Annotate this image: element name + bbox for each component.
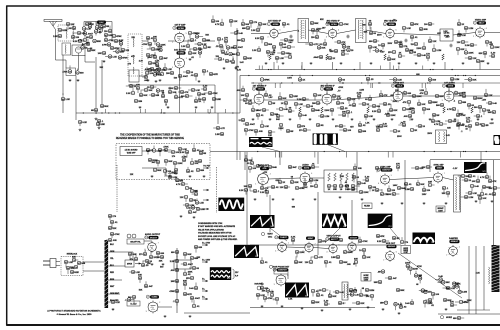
ground bbox=[155, 80, 158, 83]
part R286 with value label bbox=[176, 182, 188, 186]
value label bbox=[338, 86, 343, 89]
value label bbox=[393, 101, 398, 103]
tube V11 1ST AUDIO bbox=[442, 81, 457, 102]
svg-text:0.5V: 0.5V bbox=[490, 123, 495, 125]
part R220 with value label bbox=[462, 92, 466, 98]
part R489 with value label bbox=[410, 128, 417, 132]
wire cluster top bbox=[128, 84, 215, 86]
value label bbox=[264, 190, 268, 192]
junction node bbox=[232, 112, 233, 113]
ground bbox=[370, 62, 373, 65]
part R492 with value label bbox=[480, 173, 489, 179]
part R36 with value label bbox=[148, 61, 157, 65]
value label bbox=[353, 264, 356, 266]
wire bbox=[217, 113, 219, 124]
junction node bbox=[475, 75, 476, 76]
part R344 with value label bbox=[422, 186, 431, 192]
ground bbox=[151, 263, 154, 266]
value label bbox=[476, 273, 481, 275]
svg-text:220K: 220K bbox=[363, 192, 369, 194]
svg-text:2: 2 bbox=[159, 302, 160, 304]
part R323 with value label bbox=[309, 178, 318, 184]
IF transformer T2 bbox=[356, 19, 367, 43]
ground bbox=[445, 308, 448, 311]
svg-text:1ST SOUND IF: 1ST SOUND IF bbox=[253, 85, 268, 87]
part R164 with value label bbox=[201, 85, 208, 91]
ground bbox=[147, 79, 150, 82]
part R362 with value label bbox=[318, 239, 327, 243]
svg-text:1.5K: 1.5K bbox=[288, 299, 293, 301]
svg-text:1.5K: 1.5K bbox=[112, 56, 117, 58]
value label bbox=[291, 176, 294, 178]
tube V8 1ST SOUND IF bbox=[252, 85, 268, 105]
value label bbox=[199, 150, 204, 152]
capacitor C1 bbox=[290, 35, 293, 39]
part R16 with value label bbox=[110, 46, 120, 50]
part R509 with value label bbox=[129, 270, 140, 274]
part R119 with value label bbox=[465, 56, 477, 60]
svg-text:47K: 47K bbox=[403, 101, 407, 104]
svg-text:5-40: 5-40 bbox=[302, 114, 307, 117]
sound takeoff transformer bbox=[436, 130, 447, 144]
part R296 with value label bbox=[188, 208, 197, 214]
part R40 with value label bbox=[145, 67, 154, 75]
value label bbox=[447, 127, 451, 129]
feed arrow bbox=[203, 208, 209, 210]
ground bbox=[189, 175, 192, 178]
part R476 with value label bbox=[434, 122, 447, 126]
part R500 with value label bbox=[244, 155, 253, 162]
value label bbox=[146, 149, 151, 152]
part R170 with value label bbox=[194, 97, 201, 103]
part R90 with value label bbox=[313, 55, 323, 59]
part R488 with value label bbox=[390, 129, 401, 133]
part R349 with value label bbox=[470, 184, 479, 191]
ground bbox=[475, 200, 478, 203]
mixer output wire bbox=[78, 56, 80, 70]
junction node bbox=[161, 112, 162, 113]
svg-text:1K: 1K bbox=[332, 58, 335, 60]
part R215 with value label bbox=[435, 94, 444, 98]
part R385 with value label bbox=[324, 300, 330, 306]
tuner RF dashed box bbox=[58, 25, 74, 41]
tube top feed wire bbox=[397, 83, 399, 95]
wire bbox=[239, 76, 241, 114]
part R9 with value label bbox=[93, 39, 102, 43]
value label bbox=[427, 133, 432, 135]
svg-text:12K: 12K bbox=[395, 90, 399, 92]
part R98 with value label bbox=[388, 50, 396, 54]
svg-text:HORIZ: HORIZ bbox=[446, 317, 453, 319]
part R439 with value label bbox=[396, 288, 405, 292]
svg-text:CONDENSERS WITH 170V.: CONDENSERS WITH 170V. bbox=[198, 223, 223, 225]
part R408 with value label bbox=[186, 276, 194, 280]
part R297 with value label bbox=[239, 188, 248, 194]
svg-text:2: 2 bbox=[446, 254, 447, 256]
wire bbox=[144, 240, 152, 242]
svg-text:1.5K: 1.5K bbox=[68, 262, 73, 264]
hor phase det label bbox=[269, 265, 290, 268]
part R459 with value label bbox=[78, 36, 87, 42]
ground bbox=[423, 202, 426, 205]
tube V17 12AU7 bbox=[275, 236, 289, 253]
svg-text:6CB6: 6CB6 bbox=[273, 24, 279, 26]
junction node bbox=[463, 151, 464, 152]
feed arrow bbox=[202, 289, 208, 292]
part R401 with value label bbox=[173, 299, 179, 305]
ground bbox=[411, 118, 414, 121]
bus tap wire bbox=[398, 66, 400, 70]
value label bbox=[384, 114, 389, 116]
svg-text:VIDEO AMP: VIDEO AMP bbox=[475, 18, 487, 21]
part R273 with value label bbox=[153, 168, 162, 172]
part R227 with value label bbox=[256, 113, 264, 120]
part R237 with value label bbox=[474, 114, 483, 118]
part R71 with value label bbox=[266, 50, 275, 57]
part R69 with value label bbox=[264, 42, 273, 46]
scope callout 3 bbox=[390, 228, 400, 240]
svg-text:470K: 470K bbox=[122, 56, 128, 59]
svg-text:5-40: 5-40 bbox=[282, 46, 287, 49]
svg-text:10K: 10K bbox=[194, 163, 198, 165]
part R199 with value label bbox=[359, 102, 370, 106]
interlock dashed box bbox=[61, 257, 83, 276]
capacitor C4 bbox=[450, 44, 453, 48]
vert osc label bbox=[261, 232, 273, 238]
part R188 with value label bbox=[313, 93, 322, 100]
right rail wire bbox=[493, 160, 495, 245]
value label bbox=[393, 20, 397, 22]
svg-text:6AC7: 6AC7 bbox=[479, 22, 485, 25]
ground bbox=[398, 62, 401, 65]
part R428 with value label bbox=[378, 270, 385, 274]
wire bbox=[142, 40, 148, 42]
svg-text:B+ ADJ: B+ ADJ bbox=[131, 302, 137, 305]
phase det box bbox=[274, 269, 288, 274]
junction node bbox=[304, 69, 305, 70]
resistor R136 bbox=[442, 54, 444, 60]
waveform scope S12 (saw) bbox=[234, 245, 259, 258]
part R160 with value label bbox=[174, 92, 183, 99]
part R190 with value label bbox=[311, 108, 320, 112]
value label bbox=[139, 60, 144, 63]
part R440 with value label bbox=[425, 298, 433, 305]
junction node bbox=[430, 69, 431, 70]
ground bbox=[79, 129, 82, 132]
value label bbox=[437, 33, 441, 35]
part R201 with value label bbox=[368, 104, 381, 108]
tube V23 HOR OUT bbox=[383, 243, 397, 262]
svg-text:6SN7GT: 6SN7GT bbox=[278, 270, 287, 272]
svg-text:82K: 82K bbox=[294, 182, 298, 184]
part R224 with value label bbox=[484, 89, 493, 97]
value label bbox=[160, 267, 164, 269]
part R145 with value label bbox=[61, 93, 70, 101]
value label bbox=[446, 288, 450, 290]
svg-text:10K: 10K bbox=[455, 283, 459, 285]
value label bbox=[461, 131, 464, 133]
value label bbox=[326, 23, 331, 25]
value label bbox=[400, 123, 404, 125]
part R121 with value label bbox=[249, 20, 258, 28]
ground bbox=[454, 118, 457, 121]
coil L8 bbox=[168, 173, 176, 174]
part R210 with value label bbox=[417, 99, 426, 105]
part R12 with value label bbox=[104, 35, 114, 42]
svg-text:AGC KEYER: AGC KEYER bbox=[174, 48, 186, 51]
svg-text:2.2M: 2.2M bbox=[468, 28, 473, 30]
part R94 with value label bbox=[373, 49, 383, 53]
svg-text:6CB6: 6CB6 bbox=[178, 28, 184, 30]
socket lead label BLK bbox=[110, 244, 115, 246]
part R341 with value label bbox=[404, 182, 412, 188]
svg-text:.0047: .0047 bbox=[182, 75, 188, 78]
part R450 with value label bbox=[202, 69, 209, 75]
svg-text:82K: 82K bbox=[393, 110, 397, 112]
tube V24 DAMPER bbox=[446, 237, 460, 257]
part R339 with value label bbox=[386, 192, 399, 196]
value label bbox=[85, 42, 90, 44]
value label bbox=[130, 174, 134, 176]
part R264 with value label bbox=[192, 144, 200, 152]
ground bbox=[332, 118, 335, 121]
svg-text:1: 1 bbox=[288, 243, 289, 245]
svg-text:4.7K: 4.7K bbox=[213, 73, 218, 76]
part R169 with value label bbox=[164, 99, 168, 106]
svg-text:3.3K: 3.3K bbox=[461, 35, 466, 37]
resistor R133 bbox=[269, 54, 271, 60]
part R47 with value label bbox=[181, 40, 190, 47]
part R26 with value label bbox=[97, 119, 104, 126]
ground bbox=[261, 305, 264, 308]
part R149 with value label bbox=[136, 84, 140, 93]
part R29 with value label bbox=[142, 42, 152, 49]
part R355 with value label bbox=[480, 189, 488, 196]
svg-text:470K: 470K bbox=[264, 78, 270, 81]
ground bbox=[164, 315, 167, 318]
part R38 with value label bbox=[145, 67, 154, 71]
value label bbox=[467, 300, 472, 302]
value label bbox=[287, 78, 292, 80]
svg-text:.0047: .0047 bbox=[171, 171, 177, 174]
ground bbox=[98, 127, 101, 130]
svg-text:8.2K: 8.2K bbox=[397, 79, 402, 81]
wire bbox=[166, 168, 170, 176]
agc drop wire bbox=[62, 99, 64, 113]
svg-text:135V: 135V bbox=[422, 194, 427, 196]
part R167 with value label bbox=[212, 97, 221, 101]
svg-text:6AU6: 6AU6 bbox=[326, 88, 332, 91]
part R383 with value label bbox=[366, 294, 374, 300]
svg-text:6BG6G: 6BG6G bbox=[388, 246, 396, 248]
socket wire 4 bbox=[108, 293, 120, 295]
svg-text:82K: 82K bbox=[460, 49, 464, 51]
hor freq control bbox=[255, 284, 265, 291]
junction node bbox=[312, 75, 313, 76]
part R473 with value label bbox=[238, 118, 245, 122]
resistor R254 bbox=[367, 107, 369, 113]
svg-text:56K: 56K bbox=[332, 296, 336, 298]
feed arrow bbox=[202, 297, 208, 300]
svg-text:3: 3 bbox=[274, 284, 275, 286]
value label bbox=[297, 31, 300, 33]
junction node bbox=[248, 75, 249, 76]
part R356 with value label bbox=[375, 166, 384, 172]
svg-text:2.2M: 2.2M bbox=[462, 292, 467, 294]
IF input shield dashed bbox=[128, 34, 142, 76]
svg-text:39K: 39K bbox=[298, 262, 302, 264]
part R173 with value label bbox=[241, 93, 249, 100]
ground bbox=[90, 47, 93, 50]
junction node bbox=[369, 75, 370, 76]
svg-text:3.3K: 3.3K bbox=[443, 31, 448, 33]
part R352 with value label bbox=[488, 176, 497, 183]
svg-text:47K: 47K bbox=[130, 258, 134, 261]
value label bbox=[390, 95, 395, 97]
svg-text:8.2K: 8.2K bbox=[119, 40, 124, 42]
socket wire 1 bbox=[108, 251, 125, 253]
ground bbox=[292, 198, 295, 201]
part R487 with value label bbox=[376, 124, 380, 132]
part R81 with value label bbox=[305, 42, 318, 46]
coil L2 bbox=[65, 45, 66, 54]
part R122 with value label bbox=[258, 22, 267, 29]
part R43 with value label bbox=[188, 31, 198, 38]
part R177 with value label bbox=[268, 101, 275, 105]
junction node bbox=[434, 151, 435, 152]
tube V21 6SN7GT bbox=[273, 268, 288, 286]
svg-text:3.3K: 3.3K bbox=[476, 273, 481, 275]
svg-text:4.7K: 4.7K bbox=[187, 293, 192, 296]
svg-text:47K: 47K bbox=[184, 91, 188, 94]
bus tap wire bbox=[314, 152, 316, 158]
part R455 with value label bbox=[104, 26, 112, 33]
bus tap wire bbox=[387, 152, 389, 158]
part R314 with value label bbox=[250, 189, 260, 193]
part R429 with value label bbox=[380, 301, 388, 305]
vert wire bbox=[356, 152, 358, 168]
part R503 with value label bbox=[311, 255, 324, 259]
bus tap wire bbox=[195, 109, 197, 113]
ground bbox=[415, 62, 418, 65]
svg-text:2.2M: 2.2M bbox=[454, 79, 459, 81]
value label bbox=[416, 284, 419, 286]
part R477 with value label bbox=[445, 119, 457, 123]
part R266 with value label bbox=[148, 158, 158, 162]
part R447 with value label bbox=[178, 74, 188, 80]
svg-text:12K: 12K bbox=[305, 262, 309, 264]
part R183 with value label bbox=[289, 94, 298, 98]
value label bbox=[147, 263, 151, 265]
value label bbox=[159, 261, 163, 263]
part R350 with value label bbox=[472, 176, 480, 183]
ground bbox=[398, 312, 401, 315]
vertical feed wire lower bbox=[236, 100, 238, 160]
part R7 with value label bbox=[94, 30, 102, 36]
part R249 with value label bbox=[456, 119, 465, 127]
svg-text:12K: 12K bbox=[472, 58, 476, 60]
ground bbox=[180, 215, 183, 218]
svg-text:220K: 220K bbox=[390, 115, 396, 117]
part R460 with value label bbox=[58, 28, 67, 32]
svg-text:5-40: 5-40 bbox=[339, 291, 344, 294]
part R86 with value label bbox=[330, 49, 338, 53]
wire bottom power bbox=[184, 312, 250, 314]
value label bbox=[383, 122, 388, 125]
part R197 with value label bbox=[346, 110, 353, 117]
part R494 with value label bbox=[478, 196, 487, 204]
ground bbox=[487, 62, 490, 65]
junction node bbox=[115, 112, 116, 113]
part R85 with value label bbox=[342, 45, 351, 52]
svg-text:3.3K: 3.3K bbox=[195, 90, 200, 92]
svg-text:DRIVE: DRIVE bbox=[364, 277, 369, 279]
value label bbox=[328, 294, 331, 296]
part R510 with value label bbox=[138, 275, 142, 283]
socket lead label BLU bbox=[110, 265, 115, 267]
part R318 with value label bbox=[278, 178, 285, 184]
part R127 with value label bbox=[402, 26, 411, 32]
ground bbox=[198, 80, 201, 83]
horiz drive control box 2 bbox=[401, 246, 411, 255]
coil L10 bbox=[456, 177, 457, 210]
junction node bbox=[465, 151, 466, 152]
svg-text:6W4GT: 6W4GT bbox=[451, 240, 459, 243]
twin lead wire bbox=[55, 30, 57, 39]
deflection label bbox=[440, 316, 452, 319]
tube V2 1ST IF AMP bbox=[172, 24, 186, 45]
part R416 with value label bbox=[405, 263, 411, 271]
wire drop bbox=[317, 192, 319, 255]
part R508 with value label bbox=[141, 261, 149, 267]
part R52 with value label bbox=[202, 38, 211, 42]
svg-text:3: 3 bbox=[146, 311, 147, 313]
svg-text:6: 6 bbox=[396, 29, 397, 31]
part R268 with value label bbox=[164, 159, 173, 165]
svg-text:56K: 56K bbox=[446, 288, 450, 290]
value label bbox=[139, 289, 143, 291]
value label bbox=[174, 78, 178, 80]
svg-text:220K: 220K bbox=[467, 300, 472, 302]
section dashed boundary bbox=[216, 167, 218, 213]
part R484 with value label bbox=[299, 128, 311, 132]
part R437 with value label bbox=[374, 280, 382, 284]
waveform scope S2 (bars) bbox=[313, 133, 338, 145]
part R332 with value label bbox=[268, 165, 277, 169]
resistor R256 bbox=[471, 107, 473, 113]
part R110 with value label bbox=[457, 30, 466, 37]
ground bbox=[169, 175, 172, 178]
ground bbox=[195, 106, 198, 109]
value label bbox=[490, 123, 495, 125]
svg-text:1K: 1K bbox=[399, 53, 402, 55]
schematic border frame top bbox=[6, 5, 500, 7]
part R232 with value label bbox=[364, 114, 373, 120]
svg-text:56K: 56K bbox=[158, 47, 162, 49]
svg-text:470K: 470K bbox=[417, 265, 422, 268]
svg-text:220K: 220K bbox=[188, 272, 193, 274]
svg-text:AUDIO: AUDIO bbox=[302, 163, 309, 166]
part R240 with value label bbox=[260, 120, 269, 128]
resistor R135 bbox=[384, 54, 386, 60]
bus tap wire bbox=[274, 83, 276, 88]
coil L3 bbox=[133, 37, 134, 47]
part R10 with value label bbox=[81, 39, 90, 46]
tube V5 2ND VIDEO IF bbox=[326, 21, 341, 39]
junction node bbox=[452, 69, 453, 70]
part R423 with value label bbox=[438, 281, 451, 285]
ground bbox=[193, 216, 196, 219]
